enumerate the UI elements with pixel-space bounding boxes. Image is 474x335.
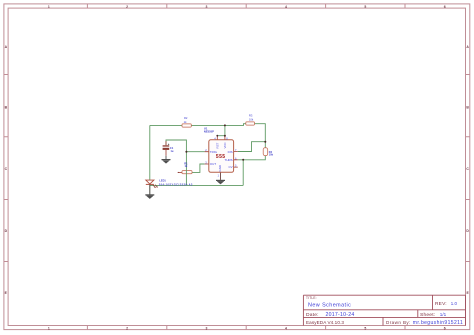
wire C1 to TRIG <box>166 140 205 152</box>
svg-text:RST: RST <box>215 142 219 148</box>
svg-text:Sheet:: Sheet: <box>420 312 435 318</box>
wire LED cathode to ground <box>149 184 151 195</box>
svg-text:3: 3 <box>206 326 208 330</box>
svg-text:1u: 1u <box>171 150 174 153</box>
svg-text:5: 5 <box>364 5 366 9</box>
svg-text:EasyEDA V4.10.3: EasyEDA V4.10.3 <box>306 320 344 325</box>
svg-text:3: 3 <box>206 5 208 9</box>
svg-text:NE555P: NE555P <box>204 129 214 133</box>
junction dot bus/VCC <box>224 124 226 126</box>
svg-text:2017-10-24: 2017-10-24 <box>326 312 355 318</box>
wire top VCC bus <box>150 124 265 148</box>
resistor R1 <box>178 171 192 174</box>
svg-text:Drawn By:: Drawn By: <box>386 320 411 325</box>
wire VCC branch to pin 8 <box>217 125 225 135</box>
svg-text:New Schematic: New Schematic <box>308 302 351 308</box>
wire THRS down branch <box>242 160 244 186</box>
svg-text:REV:: REV: <box>435 301 447 307</box>
ground under C1 <box>162 156 171 164</box>
svg-text:1.0: 1.0 <box>451 301 458 306</box>
svg-text:DIS: DIS <box>228 150 233 154</box>
capacitor C1 <box>163 141 170 156</box>
svg-text:6: 6 <box>444 5 446 9</box>
svg-text:TITLE:: TITLE: <box>306 296 317 300</box>
title block <box>303 295 465 325</box>
wire left rail <box>149 125 151 179</box>
svg-text:VCC: VCC <box>223 142 227 148</box>
svg-text:1/1: 1/1 <box>440 312 447 317</box>
svg-text:10k: 10k <box>249 118 254 122</box>
LED LED1 <box>146 180 158 188</box>
svg-text:204-10SYGC/S530-A3: 204-10SYGC/S530-A3 <box>159 182 193 186</box>
svg-text:4: 4 <box>285 5 287 9</box>
svg-text:GND: GND <box>218 165 222 171</box>
svg-text:Date:: Date: <box>306 312 319 318</box>
wire THRS to R4 <box>238 156 265 160</box>
junction dot THRS node <box>242 159 244 161</box>
svg-text:mr.begushin915211: mr.begushin915211 <box>413 320 463 326</box>
svg-text:2: 2 <box>126 326 128 330</box>
svg-text:2: 2 <box>126 5 128 9</box>
svg-text:LED1: LED1 <box>159 180 166 183</box>
junction dot RST-VCC tie <box>224 135 226 137</box>
ground under U1 <box>216 180 225 184</box>
wire DIS branch <box>238 142 265 152</box>
svg-text:THRS: THRS <box>225 158 233 162</box>
svg-text:6: 6 <box>444 326 446 330</box>
svg-text:R3: R3 <box>249 114 253 118</box>
resistor R4 <box>263 148 268 156</box>
resistor R2 <box>182 124 191 127</box>
svg-text:1: 1 <box>48 5 50 9</box>
svg-text:5: 5 <box>364 326 366 330</box>
svg-text:CV: CV <box>229 165 233 169</box>
ground under LED1 <box>145 195 154 199</box>
junction dot DIS node <box>264 141 266 143</box>
wire bottom bus <box>150 184 243 186</box>
wire TRIG down through R1 <box>185 152 187 186</box>
junction dot TRIG node <box>185 151 187 153</box>
op-amp U1 555 timer body <box>205 136 238 180</box>
wire OUT to R1 <box>192 164 205 172</box>
resistor R3 <box>246 122 255 125</box>
svg-text:TRIG: TRIG <box>210 150 218 154</box>
junction dot RST pin end <box>216 135 218 137</box>
svg-text:R2: R2 <box>184 116 188 120</box>
svg-text:OUT: OUT <box>210 162 217 166</box>
svg-text:4: 4 <box>285 326 287 330</box>
svg-text:10k: 10k <box>269 154 274 157</box>
svg-text:1: 1 <box>48 326 50 330</box>
